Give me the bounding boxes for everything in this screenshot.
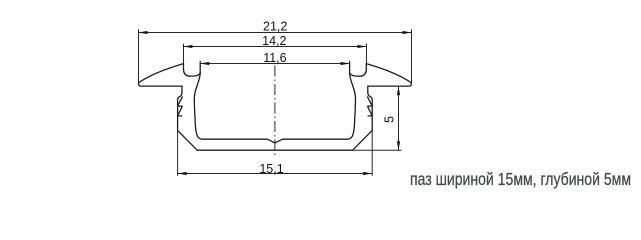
profile body right half (mirror) — [275, 62, 411, 150]
ext 5 bottom — [353, 149, 402, 151]
svg-text:паз шириной 15мм, глубиной 5мм: паз шириной 15мм, глубиной 5мм — [410, 169, 631, 189]
ext 11,6 right — [349, 61, 351, 63]
ext 15,1 right — [371, 130, 373, 175]
dim line 14,2 — [184, 46, 367, 48]
arrows 11,6 — [200, 62, 209, 65]
arrows 14,2 — [184, 45, 193, 48]
ext 21,2 right — [411, 29, 413, 83]
arrows 21,2 — [139, 31, 148, 34]
arrows 5 — [397, 86, 400, 95]
arrows 15,1 — [178, 172, 187, 175]
svg-text:21,2: 21,2 — [263, 20, 287, 34]
svg-text:14,2: 14,2 — [262, 34, 286, 48]
arrowheads — [139, 31, 412, 175]
ext 21,2 left — [138, 29, 140, 83]
dimension lines — [139, 33, 412, 174]
svg-text:15,1: 15,1 — [259, 162, 283, 176]
center line (dash-dot) — [274, 66, 276, 158]
dim line 15,1 — [178, 173, 373, 175]
profile body left half — [139, 62, 412, 150]
extension lines — [139, 29, 412, 175]
dim line 21,2 — [139, 32, 412, 34]
ext 14,2 right — [366, 44, 368, 64]
ext 11,6 left — [199, 61, 201, 63]
dim line 5 — [398, 86, 400, 150]
svg-text:11,6: 11,6 — [263, 51, 286, 65]
dimension texts — [259, 20, 396, 176]
ext 15,1 left — [177, 130, 179, 175]
dim line 11,6 — [200, 63, 349, 65]
ext 14,2 left — [183, 44, 185, 64]
svg-text:5: 5 — [383, 116, 397, 123]
